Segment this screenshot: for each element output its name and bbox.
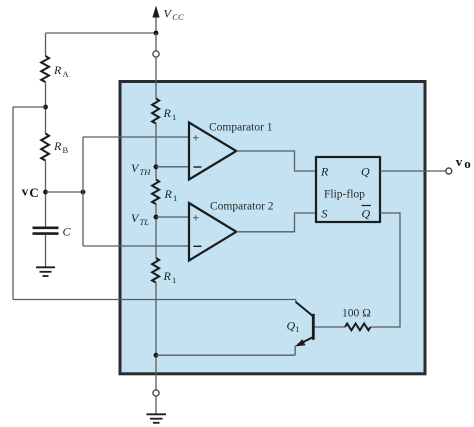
resistor R1 (bottom)	[152, 258, 159, 283]
svg-text:Q: Q	[287, 318, 296, 332]
transistor Q1	[295, 302, 313, 346]
label R1 bottom	[163, 269, 177, 285]
label RB	[53, 139, 69, 155]
svg-text:+: +	[193, 131, 200, 145]
op-amp comparator 2	[189, 203, 236, 261]
label VTL	[131, 211, 149, 227]
svg-text:100 Ω: 100 Ω	[342, 308, 371, 320]
wire R1 to R1 mid	[155, 124, 157, 180]
wire RB to vC node	[45, 161, 47, 227]
wire resistor to base	[314, 326, 345, 328]
wire comparator1 - input	[156, 166, 189, 168]
svg-text:Q: Q	[361, 165, 370, 179]
wire top VCC rail	[46, 32, 157, 34]
resistor R1 (top)	[152, 99, 159, 124]
svg-text:Flip-flop: Flip-flop	[324, 189, 365, 201]
node RA/RB junction	[43, 105, 48, 110]
svg-text:1: 1	[172, 112, 176, 122]
svg-text:v: v	[22, 184, 29, 199]
wire pin to ground	[155, 396, 157, 413]
wire comparator2 - input	[83, 245, 189, 247]
node vC	[43, 190, 48, 195]
svg-text:1: 1	[295, 324, 299, 334]
wire comparator2 + input	[156, 216, 189, 218]
wire Qbar to base resistor	[371, 213, 401, 327]
wire vC to comparator link	[46, 191, 84, 193]
pin R	[320, 165, 329, 179]
wire comparator2 output to S	[236, 213, 316, 232]
resistor 100ohm	[345, 324, 371, 331]
label VCC	[164, 7, 184, 22]
wire comparator1 + input	[83, 136, 189, 138]
svg-text:R: R	[53, 139, 62, 153]
power VCC	[152, 6, 159, 34]
label R1 top	[163, 106, 177, 122]
svg-text:Q: Q	[362, 207, 371, 221]
svg-text:A: A	[63, 69, 70, 79]
pin terminal (open circle) top	[153, 51, 159, 57]
pin terminal (open circle) bottom	[153, 390, 159, 396]
wire box to ground pin	[155, 374, 157, 390]
label RA	[53, 63, 70, 79]
label Q1	[287, 318, 300, 334]
label Comparator 2	[210, 201, 274, 213]
ground (bottom)	[147, 414, 167, 423]
label vo	[456, 154, 471, 171]
svg-text:R: R	[53, 63, 62, 77]
svg-text:C: C	[29, 185, 38, 200]
svg-text:Comparator 2: Comparator 2	[210, 201, 274, 213]
resistor RA	[41, 33, 49, 82]
svg-text:R: R	[320, 165, 329, 179]
svg-text:+: +	[193, 211, 200, 225]
label VTH	[131, 161, 151, 177]
svg-text:R: R	[163, 269, 172, 283]
svg-text:TH: TH	[140, 167, 152, 177]
wire R1 mid to R1 bottom	[155, 204, 157, 258]
svg-text:B: B	[63, 145, 69, 155]
wire VCC dot to pin	[155, 33, 157, 51]
node VTL	[154, 215, 159, 220]
wire C to ground	[45, 235, 47, 267]
flip-flop U1	[316, 157, 380, 222]
svg-text:1: 1	[173, 193, 177, 203]
svg-text:C: C	[63, 225, 72, 239]
svg-text:R: R	[164, 187, 173, 201]
svg-text:1: 1	[172, 275, 176, 285]
wire pin to R1 top	[155, 57, 157, 98]
wire bottom emitter rail	[156, 354, 295, 356]
svg-text:TL: TL	[140, 217, 150, 227]
label R1 middle	[164, 187, 178, 203]
wire R1 bottom to ground pin	[155, 283, 157, 375]
label 100 ohm	[342, 308, 371, 320]
wire emitter to rail	[294, 346, 296, 356]
node VCC junction	[154, 31, 159, 36]
pin Q	[361, 165, 370, 179]
IC block (shaded body)	[120, 82, 425, 374]
capacitor C	[33, 228, 59, 234]
resistor RB	[41, 134, 49, 161]
node on link	[81, 190, 86, 195]
op-amp comparator 1	[189, 123, 236, 180]
ground (left)	[36, 267, 55, 276]
pin S	[322, 207, 328, 221]
wire RA to RB	[45, 82, 47, 134]
label vC	[22, 184, 39, 200]
svg-text:CC: CC	[172, 12, 184, 22]
svg-text:Comparator 1: Comparator 1	[209, 122, 273, 134]
label C	[63, 225, 72, 239]
label Comparator 1	[209, 122, 273, 134]
node ground rail junction	[154, 353, 159, 358]
node VTH	[154, 164, 159, 169]
svg-text:v: v	[456, 154, 463, 169]
wire threshold/trigger vertical link	[82, 137, 84, 246]
pin Qbar	[362, 206, 372, 221]
svg-text:o: o	[464, 156, 471, 171]
svg-text:R: R	[163, 106, 172, 120]
wire discharge path (RA/RB junction to Q1 collector)	[13, 106, 46, 108]
resistor R1 (middle)	[152, 180, 159, 205]
svg-text:S: S	[322, 207, 328, 221]
terminal vo (open circle)	[446, 168, 452, 174]
wire comparator1 output to R	[236, 151, 316, 171]
wire Q output to vo	[380, 170, 446, 172]
